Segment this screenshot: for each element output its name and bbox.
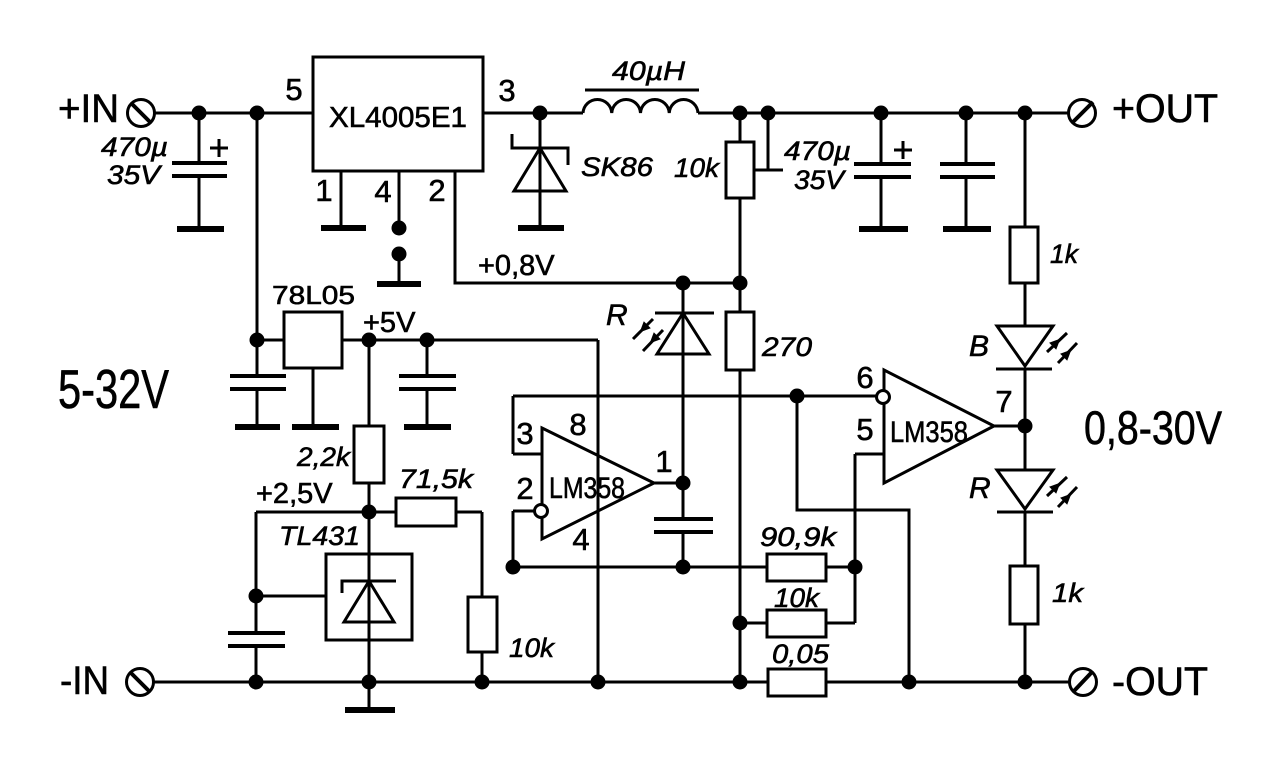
svg-text:10k: 10k (509, 633, 556, 663)
svg-text:5: 5 (856, 412, 873, 447)
svg-text:10k: 10k (774, 583, 821, 613)
svg-text:78L05: 78L05 (272, 280, 355, 310)
svg-text:2,2k: 2,2k (296, 442, 352, 472)
svg-text:4: 4 (572, 522, 589, 557)
svg-text:-IN: -IN (60, 659, 109, 703)
svg-text:1k: 1k (1050, 239, 1079, 269)
svg-text:TL431: TL431 (279, 521, 360, 551)
svg-text:35V: 35V (107, 160, 163, 190)
svg-text:LM358: LM358 (890, 416, 968, 449)
svg-text:6: 6 (856, 360, 873, 395)
svg-text:3: 3 (516, 416, 533, 451)
svg-text:0,8-30V: 0,8-30V (1084, 401, 1223, 454)
svg-text:470µ: 470µ (784, 136, 851, 166)
svg-text:-OUT: -OUT (1112, 660, 1208, 704)
svg-text:270: 270 (761, 332, 812, 362)
svg-text:35V: 35V (794, 165, 847, 195)
svg-text:+OUT: +OUT (1112, 87, 1218, 131)
svg-text:0,05: 0,05 (772, 639, 830, 669)
svg-text:40µH: 40µH (612, 56, 686, 86)
svg-text:90,9k: 90,9k (760, 522, 838, 552)
svg-text:XL4005E1: XL4005E1 (329, 102, 467, 134)
svg-text:2: 2 (516, 471, 533, 506)
svg-text:7: 7 (995, 384, 1012, 419)
svg-text:+IN: +IN (58, 87, 119, 131)
svg-text:LM358: LM358 (549, 472, 625, 505)
svg-text:B: B (969, 330, 989, 363)
svg-text:8: 8 (569, 407, 586, 442)
svg-text:4: 4 (374, 174, 391, 209)
svg-text:5-32V: 5-32V (58, 358, 169, 420)
svg-text:1: 1 (655, 444, 672, 479)
svg-text:1: 1 (315, 173, 332, 208)
svg-text:10k: 10k (674, 153, 721, 183)
svg-text:5: 5 (285, 72, 302, 107)
svg-text:3: 3 (498, 73, 515, 108)
svg-text:470µ: 470µ (101, 132, 168, 162)
svg-text:SK86: SK86 (581, 152, 654, 182)
svg-text:2: 2 (428, 173, 445, 208)
svg-text:71,5k: 71,5k (399, 464, 475, 494)
svg-text:1k: 1k (1052, 578, 1085, 608)
svg-text:R: R (969, 472, 991, 505)
svg-text:+2,5V: +2,5V (256, 478, 333, 510)
svg-text:+0,8V: +0,8V (478, 250, 555, 282)
svg-text:R: R (606, 299, 628, 332)
